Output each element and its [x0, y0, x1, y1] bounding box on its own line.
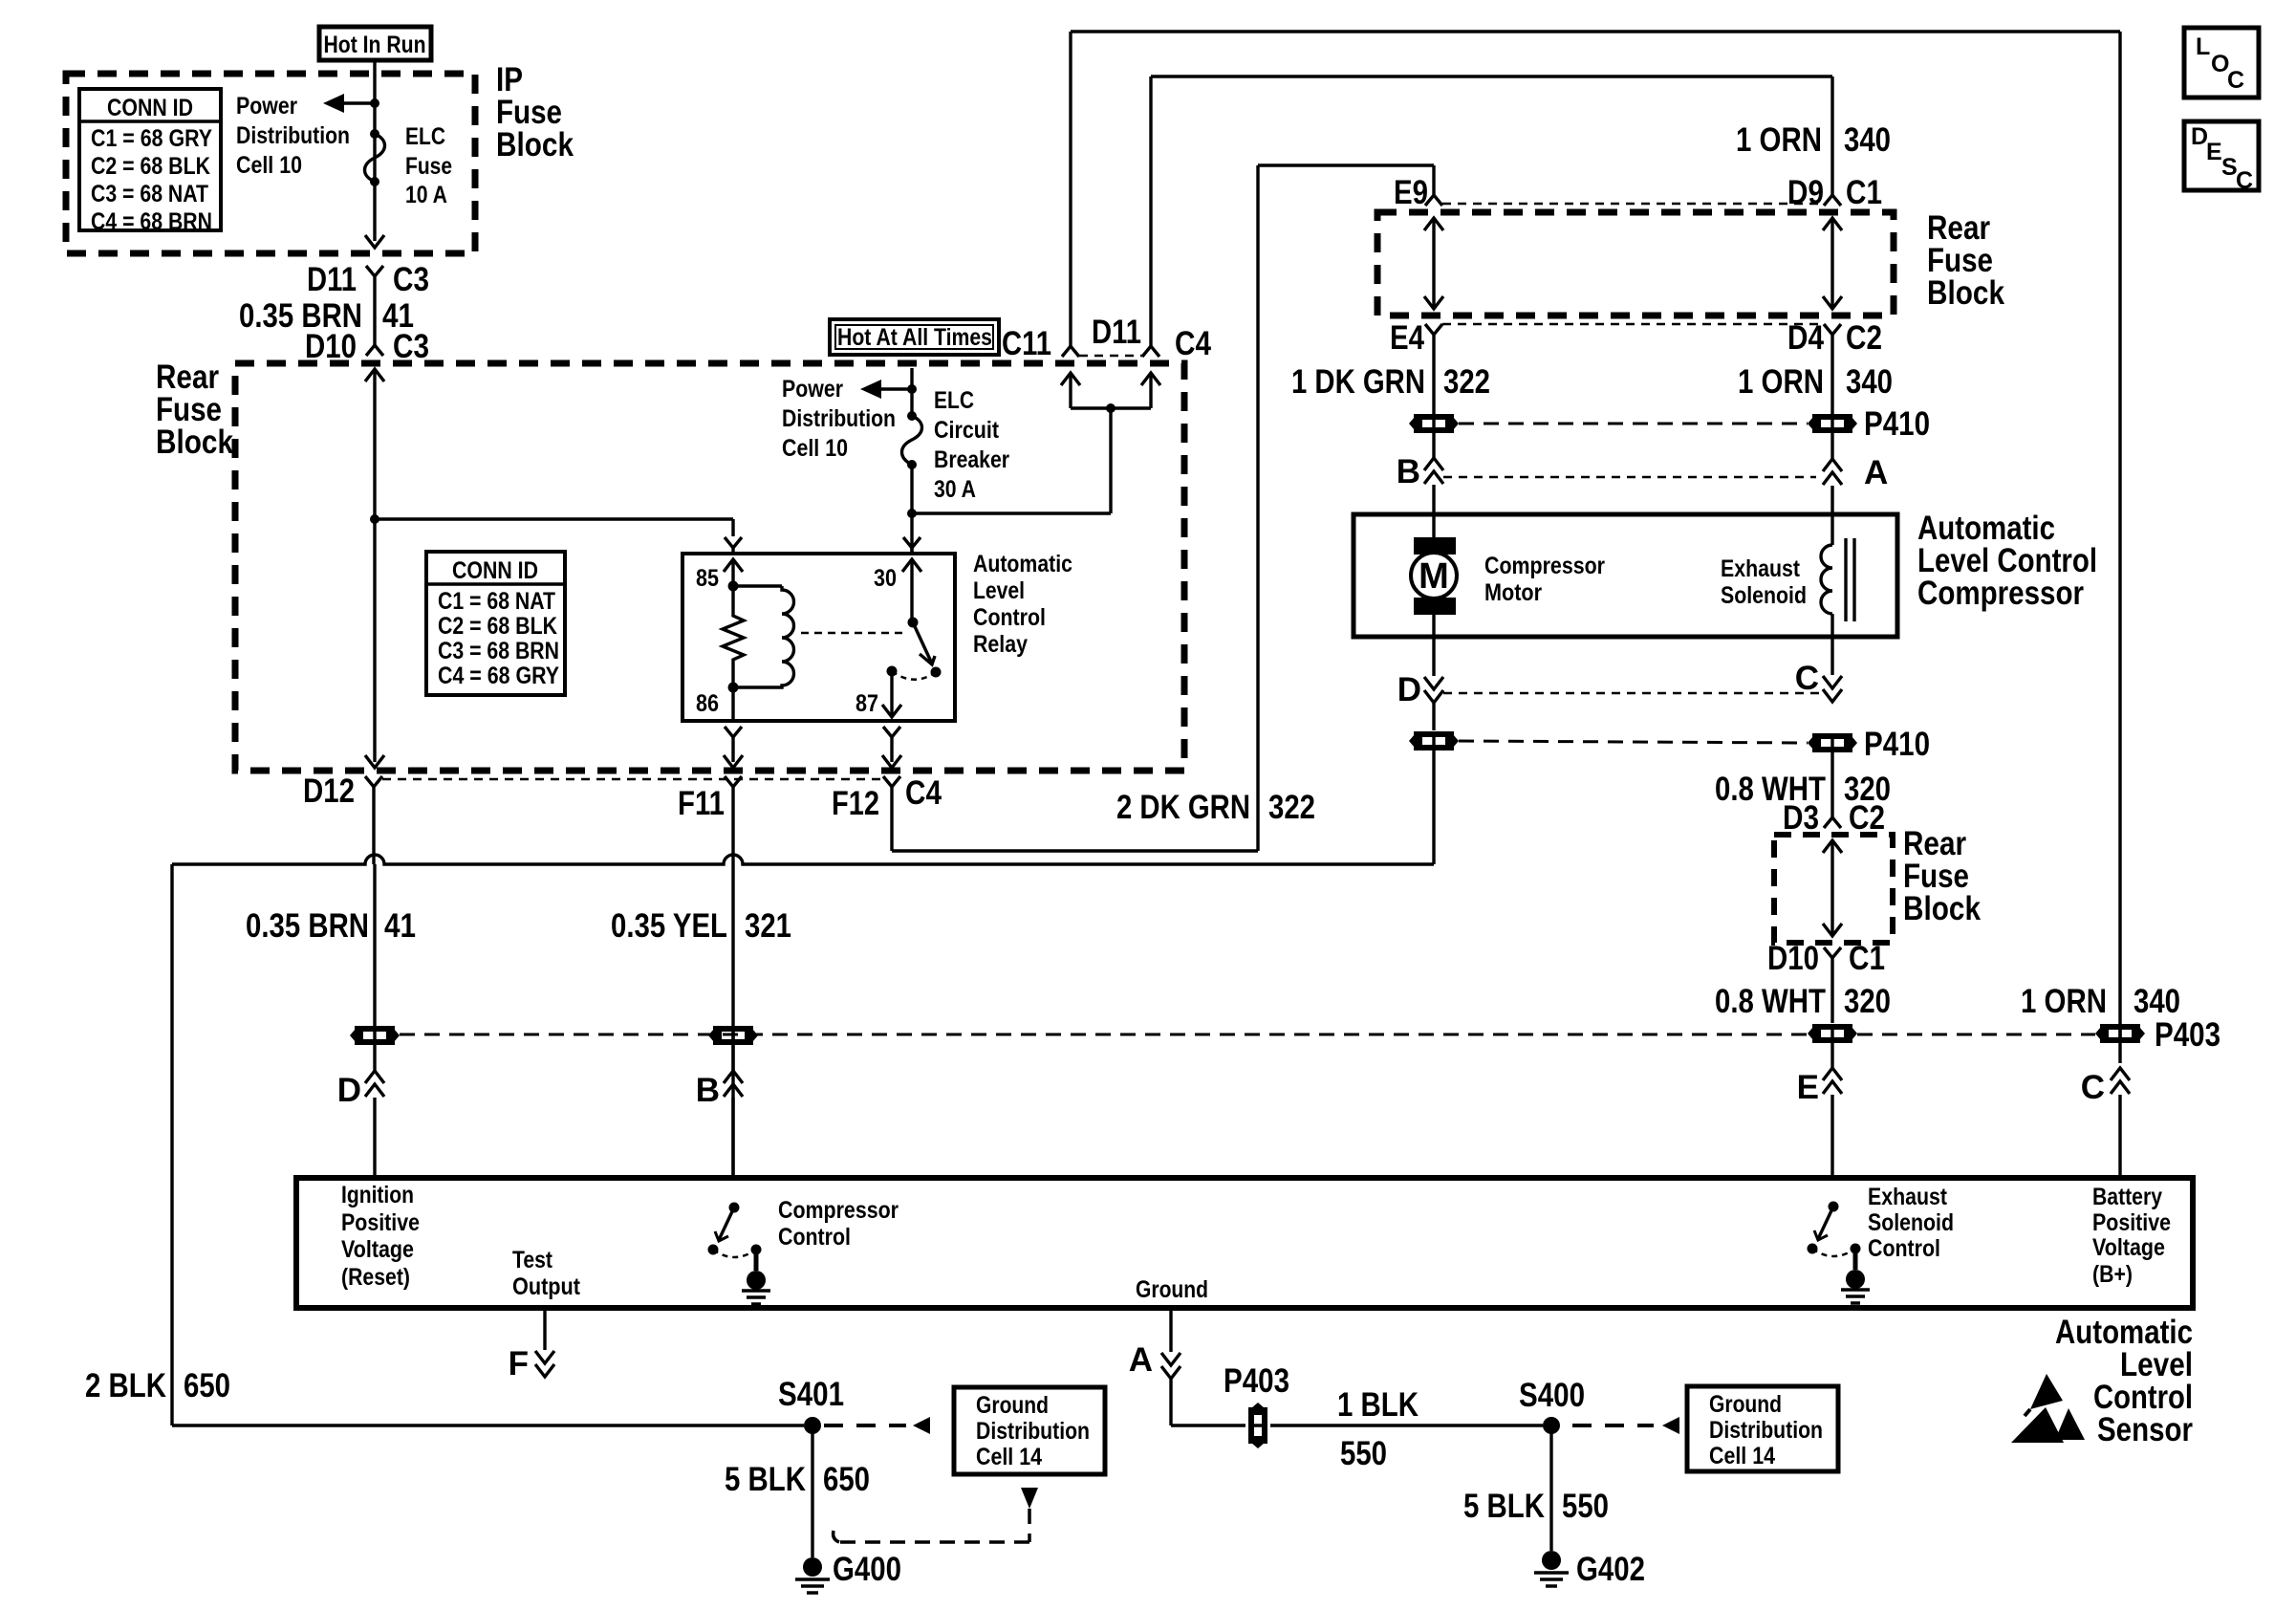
svg-text:C1 = 68 GRY: C1 = 68 GRY — [91, 125, 212, 152]
svg-text:C3: C3 — [393, 328, 429, 365]
svg-text:C2 = 68 BLK: C2 = 68 BLK — [91, 153, 210, 180]
svg-text:550: 550 — [1340, 1435, 1387, 1472]
svg-text:C1 = 68 NAT: C1 = 68 NAT — [438, 588, 555, 615]
svg-text:(Reset): (Reset) — [341, 1264, 410, 1291]
svg-text:Compressor: Compressor — [778, 1197, 899, 1224]
svg-text:C: C — [2236, 167, 2253, 194]
svg-text:Voltage: Voltage — [2092, 1234, 2165, 1261]
svg-text:D3: D3 — [1783, 799, 1819, 837]
svg-text:2 DK GRN: 2 DK GRN — [1116, 789, 1250, 826]
svg-text:550: 550 — [1562, 1488, 1609, 1525]
svg-text:D11: D11 — [307, 261, 357, 298]
svg-text:30 A: 30 A — [934, 476, 976, 503]
svg-text:S400: S400 — [1519, 1377, 1585, 1414]
svg-text:C: C — [2227, 67, 2244, 94]
svg-text:D10: D10 — [1767, 940, 1819, 977]
svg-text:D12: D12 — [303, 772, 355, 810]
svg-text:ELC: ELC — [934, 387, 974, 414]
svg-text:G400: G400 — [833, 1551, 901, 1588]
svg-text:F: F — [509, 1345, 529, 1382]
svg-text:P403: P403 — [2155, 1016, 2220, 1054]
svg-text:Automatic: Automatic — [973, 551, 1072, 577]
svg-text:Battery: Battery — [2092, 1184, 2162, 1210]
svg-text:650: 650 — [184, 1367, 230, 1404]
svg-text:Power: Power — [782, 376, 843, 402]
svg-text:C: C — [2081, 1069, 2105, 1106]
svg-text:G402: G402 — [1576, 1551, 1645, 1588]
svg-text:Distribution: Distribution — [236, 122, 350, 149]
svg-text:D9: D9 — [1787, 174, 1824, 211]
svg-text:B: B — [696, 1072, 720, 1109]
svg-text:Distribution: Distribution — [782, 405, 896, 432]
svg-text:A: A — [1864, 454, 1888, 491]
svg-text:1 ORN: 1 ORN — [2021, 983, 2107, 1020]
svg-text:30: 30 — [874, 565, 897, 592]
svg-text:B: B — [1397, 453, 1420, 490]
svg-text:C4: C4 — [905, 774, 942, 812]
svg-text:C4 = 68 BRN: C4 = 68 BRN — [91, 208, 212, 235]
svg-text:Positive: Positive — [341, 1209, 420, 1236]
svg-text:Ground: Ground — [1709, 1391, 1782, 1418]
svg-text:C: C — [1795, 660, 1819, 697]
svg-text:D10: D10 — [305, 328, 357, 365]
svg-text:Solenoid: Solenoid — [1868, 1209, 1954, 1236]
svg-text:L: L — [2196, 33, 2210, 60]
svg-text:Block: Block — [1903, 890, 1981, 927]
svg-text:Test: Test — [512, 1247, 553, 1273]
svg-text:C1: C1 — [1849, 940, 1885, 977]
svg-text:Solenoid: Solenoid — [1721, 582, 1807, 609]
svg-text:D: D — [1397, 671, 1421, 708]
svg-text:Power: Power — [236, 93, 297, 120]
svg-text:Voltage: Voltage — [341, 1236, 414, 1263]
svg-text:Block: Block — [496, 126, 574, 163]
svg-text:E: E — [1797, 1069, 1819, 1106]
svg-text:M: M — [1419, 556, 1449, 597]
svg-text:2 BLK: 2 BLK — [85, 1367, 166, 1404]
svg-text:Breaker: Breaker — [934, 446, 1009, 473]
svg-text:Compressor: Compressor — [1917, 575, 2084, 612]
svg-text:C11: C11 — [1002, 325, 1051, 362]
svg-text:E4: E4 — [1390, 319, 1424, 357]
svg-text:D: D — [337, 1072, 361, 1109]
svg-text:C2: C2 — [1846, 319, 1882, 357]
svg-text:Cell 10: Cell 10 — [782, 435, 848, 462]
svg-text:1 DK GRN: 1 DK GRN — [1291, 363, 1425, 401]
svg-text:C3 = 68 BRN: C3 = 68 BRN — [438, 638, 559, 664]
svg-text:10 A: 10 A — [405, 182, 447, 208]
svg-text:Block: Block — [1927, 274, 2004, 312]
svg-text:E9: E9 — [1394, 174, 1428, 211]
svg-text:Block: Block — [156, 424, 233, 461]
svg-text:P410: P410 — [1864, 726, 1930, 763]
svg-text:Hot At All Times: Hot At All Times — [837, 324, 992, 351]
svg-text:C2 = 68 BLK: C2 = 68 BLK — [438, 613, 557, 640]
svg-text:Cell 14: Cell 14 — [976, 1444, 1042, 1470]
svg-text:Fuse: Fuse — [405, 153, 452, 180]
svg-text:5 BLK: 5 BLK — [725, 1461, 806, 1498]
svg-text:340: 340 — [1844, 121, 1891, 159]
svg-text:(B+): (B+) — [2092, 1261, 2133, 1288]
svg-text:Sensor: Sensor — [2097, 1411, 2193, 1448]
svg-text:CONN ID: CONN ID — [107, 95, 193, 121]
svg-text:Exhaust: Exhaust — [1721, 555, 1801, 582]
svg-text:Hot In Run: Hot In Run — [324, 32, 426, 58]
svg-text:Output: Output — [512, 1273, 581, 1300]
svg-text:C2: C2 — [1849, 799, 1885, 837]
svg-text:320: 320 — [1844, 983, 1891, 1020]
svg-text:321: 321 — [745, 907, 791, 945]
svg-text:P410: P410 — [1864, 405, 1930, 443]
svg-text:Control: Control — [973, 604, 1046, 631]
svg-text:650: 650 — [823, 1461, 870, 1498]
svg-text:86: 86 — [696, 690, 719, 717]
svg-text:CONN ID: CONN ID — [452, 557, 538, 584]
svg-text:Ground: Ground — [976, 1392, 1049, 1419]
svg-text:Compressor: Compressor — [1484, 553, 1605, 579]
svg-text:Control: Control — [778, 1224, 851, 1251]
svg-text:0.35 YEL: 0.35 YEL — [611, 907, 727, 945]
svg-text:5 BLK: 5 BLK — [1463, 1488, 1545, 1525]
svg-text:C1: C1 — [1846, 174, 1882, 211]
svg-text:C4: C4 — [1175, 325, 1211, 362]
svg-text:340: 340 — [2134, 983, 2180, 1020]
svg-text:Level: Level — [973, 577, 1025, 604]
svg-text:41: 41 — [384, 907, 416, 945]
svg-text:D4: D4 — [1787, 319, 1824, 357]
svg-text:1 ORN: 1 ORN — [1736, 121, 1822, 159]
svg-text:Control: Control — [1868, 1235, 1940, 1262]
svg-text:Distribution: Distribution — [976, 1418, 1090, 1445]
svg-text:Cell 14: Cell 14 — [1709, 1443, 1775, 1469]
svg-text:0.8 WHT: 0.8 WHT — [1715, 983, 1826, 1020]
svg-text:F12: F12 — [832, 785, 879, 822]
svg-text:P403: P403 — [1224, 1362, 1289, 1400]
svg-text:1 BLK: 1 BLK — [1337, 1386, 1419, 1424]
svg-text:340: 340 — [1846, 363, 1893, 401]
svg-text:S401: S401 — [778, 1376, 844, 1413]
svg-text:87: 87 — [856, 690, 878, 717]
svg-text:C3 = 68 NAT: C3 = 68 NAT — [91, 181, 208, 207]
svg-text:0.35 BRN: 0.35 BRN — [246, 907, 369, 945]
svg-text:Relay: Relay — [973, 631, 1028, 658]
svg-text:85: 85 — [696, 565, 719, 592]
svg-text:F11: F11 — [678, 785, 725, 822]
svg-text:D11: D11 — [1092, 314, 1141, 351]
svg-text:Cell 10: Cell 10 — [236, 152, 302, 179]
svg-text:Ignition: Ignition — [341, 1182, 414, 1208]
svg-text:Exhaust: Exhaust — [1868, 1184, 1948, 1210]
svg-text:Positive: Positive — [2092, 1209, 2171, 1236]
svg-text:1 ORN: 1 ORN — [1738, 363, 1824, 401]
svg-text:322: 322 — [1443, 363, 1490, 401]
svg-text:A: A — [1129, 1341, 1153, 1379]
svg-text:Circuit: Circuit — [934, 417, 1000, 444]
svg-text:Distribution: Distribution — [1709, 1417, 1823, 1444]
svg-text:Ground: Ground — [1136, 1276, 1208, 1303]
svg-text:Motor: Motor — [1484, 579, 1542, 606]
svg-text:E: E — [2206, 139, 2222, 165]
svg-text:322: 322 — [1268, 789, 1315, 826]
svg-text:ELC: ELC — [405, 123, 445, 150]
svg-text:C4 = 68 GRY: C4 = 68 GRY — [438, 663, 559, 689]
svg-text:C3: C3 — [393, 261, 429, 298]
